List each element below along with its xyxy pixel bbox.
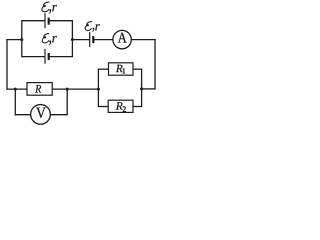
voltmeter U-V circle xyxy=(31,105,51,125)
wire voltmeter branch right vertical xyxy=(66,89,68,115)
resistor R1 subscript xyxy=(123,68,125,73)
wire R1 branch right xyxy=(133,68,142,70)
wire bottom rail right xyxy=(142,88,156,90)
wire voltmeter branch left horizontal xyxy=(15,114,31,116)
wire bottom rail middle xyxy=(52,88,98,90)
voltmeter letter V xyxy=(36,108,46,119)
label E1 comma-r xyxy=(49,9,51,13)
ammeter U-A circle xyxy=(113,30,131,48)
wire loop right vertical xyxy=(71,20,73,57)
wire cell3 to ammeter xyxy=(93,39,113,41)
wire left column xyxy=(6,39,8,90)
node dot rail V right xyxy=(66,88,69,91)
resistor R box xyxy=(27,83,52,96)
wire bottom rail left xyxy=(6,88,27,90)
wire loop left vertical xyxy=(21,20,23,57)
resistor R2 box xyxy=(108,100,133,112)
resistor R label xyxy=(35,85,41,93)
wire R2 branch right xyxy=(133,106,142,108)
wire loop to cell3 xyxy=(72,39,89,41)
cell E3 long plate xyxy=(89,32,91,47)
resistor R1 label xyxy=(116,65,123,72)
resistor R2 subscript xyxy=(123,106,126,112)
wire loop top branch left xyxy=(22,20,45,22)
node dot right loop tap xyxy=(71,38,74,41)
wire right column xyxy=(154,39,156,89)
wire loop bottom branch left xyxy=(22,56,45,58)
label E2 script E xyxy=(42,34,49,43)
resistor R2 label xyxy=(116,102,123,109)
wire R1R2 right vertical xyxy=(141,69,143,106)
wire voltmeter branch right horizontal xyxy=(50,114,67,116)
wire R1R2 left vertical xyxy=(97,69,99,106)
node dot left loop tap xyxy=(20,38,23,41)
node dot rail V left xyxy=(14,88,17,91)
cell E2 long plate xyxy=(44,49,46,64)
wire voltmeter branch left vertical xyxy=(14,89,16,115)
node dot rail R1R2 left xyxy=(97,88,100,91)
label E3 comma-r xyxy=(92,28,94,32)
cell E1 long plate xyxy=(44,13,46,28)
wire loop top branch right xyxy=(49,20,73,22)
wire left tap xyxy=(6,39,21,41)
ammeter letter A xyxy=(118,33,127,43)
label E3 script E xyxy=(85,22,92,31)
cell E1 short plate xyxy=(48,18,50,25)
wire loop bottom branch right xyxy=(49,56,73,58)
wire R2 branch left xyxy=(98,106,108,108)
wire ammeter to right corner xyxy=(131,39,155,41)
label E2 comma-r xyxy=(49,40,51,45)
label E1 script E xyxy=(42,2,49,12)
node dot rail R1R2 right xyxy=(140,87,143,90)
resistor R1 box xyxy=(109,63,134,75)
wire R1 branch left xyxy=(98,68,109,70)
cell E3 short plate xyxy=(92,36,94,43)
cell E2 short plate xyxy=(48,53,50,60)
